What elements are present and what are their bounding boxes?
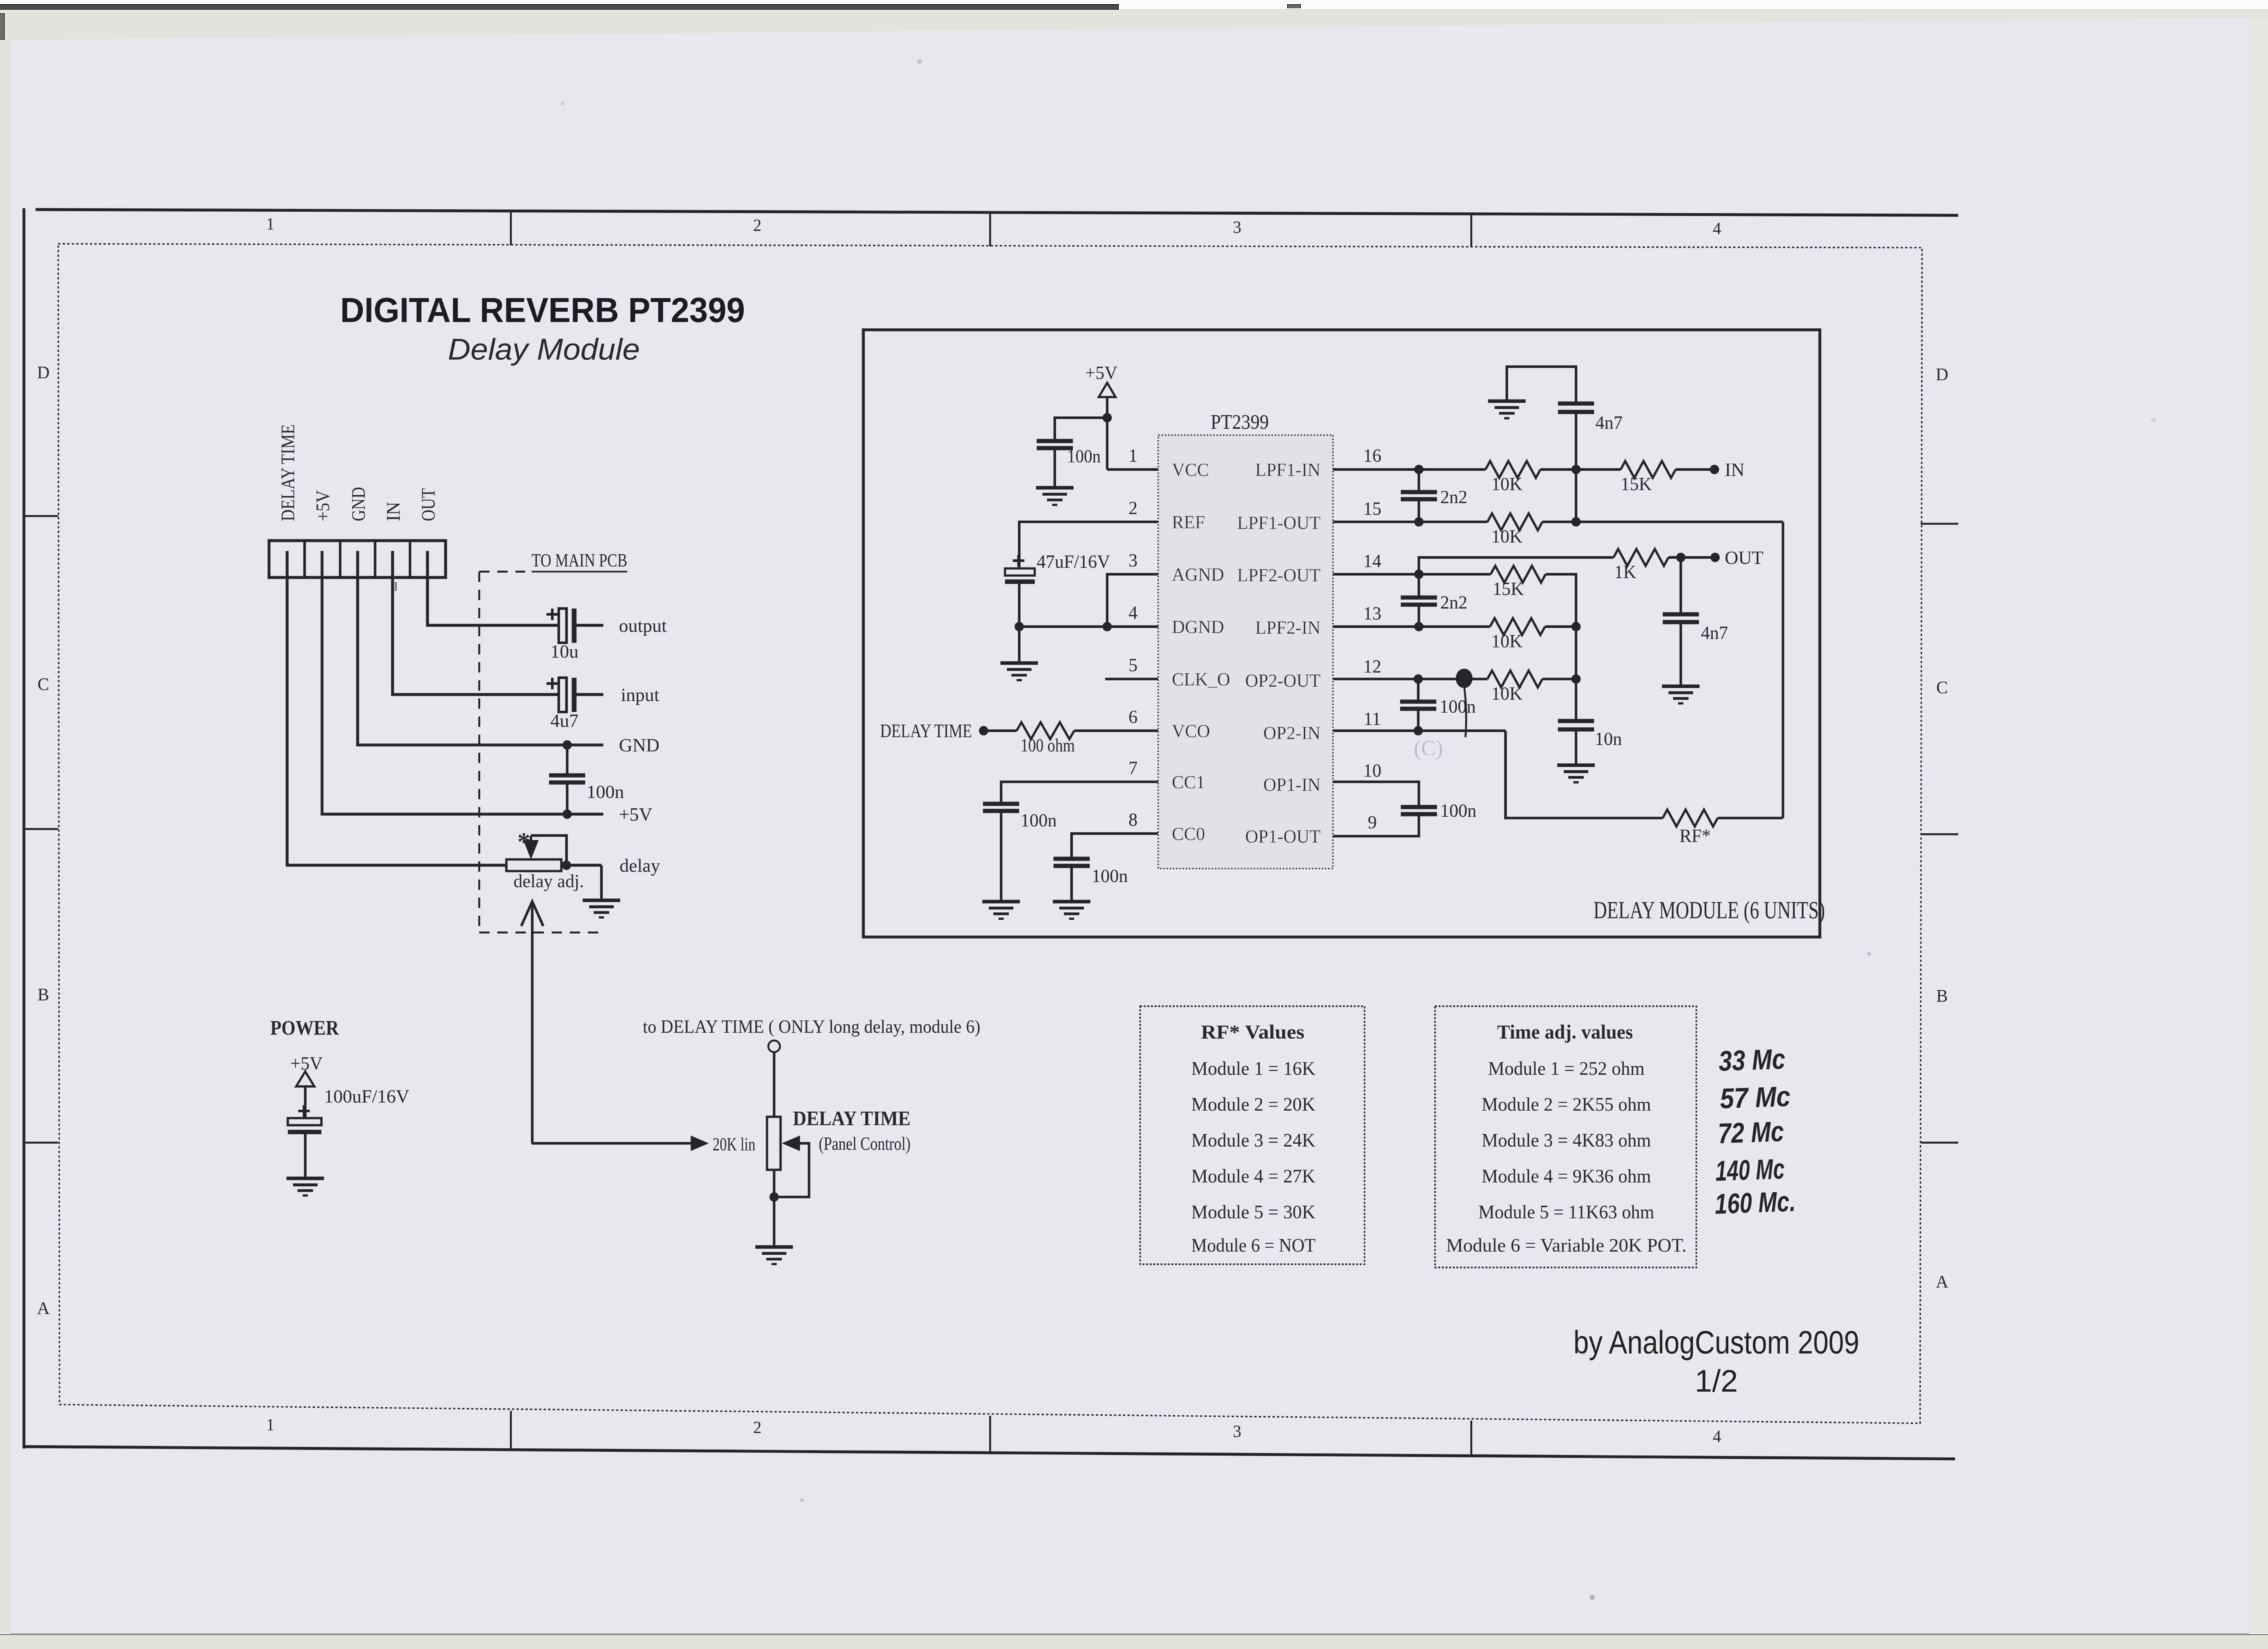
svg-text:Module 3 = 24K: Module 3 = 24K [1191,1130,1315,1151]
capacitor 4n7 (output filter) [1679,557,1682,612]
svg-text:AGND: AGND [1172,565,1224,585]
svg-text:Module 3 = 4K83 ohm: Module 3 = 4K83 ohm [1482,1130,1651,1151]
svg-text:Delay Module: Delay Module [448,332,640,366]
svg-text:100n: 100n [1067,447,1101,467]
capacitor 4n7 (input filter) [1507,367,1576,402]
svg-text:1: 1 [266,215,275,233]
svg-text:OP2-OUT: OP2-OUT [1245,671,1321,691]
wire pin12 OP2-OUT [1333,678,1487,680]
svg-text:DELAY TIME: DELAY TIME [793,1106,911,1130]
svg-text:delay adj.: delay adj. [513,872,584,892]
node vcc junction [1103,413,1112,422]
wire pin16 LPF1-IN [1333,468,1485,471]
capacitor 100n (vcc) [1055,418,1107,440]
svg-text:+5V: +5V [1085,363,1118,383]
svg-text:100n: 100n [1440,697,1476,717]
svg-text:Module 6 = Variable 20K POT.: Module 6 = Variable 20K POT. [1446,1235,1687,1256]
svg-text:11: 11 [1364,709,1381,729]
ground (47uF) [1000,662,1038,665]
svg-text:DELAY TIME: DELAY TIME [880,720,972,742]
svg-text:10K: 10K [1491,527,1522,547]
svg-text:DELAY TIME: DELAY TIME [277,424,299,521]
svg-text:Module 1 = 16K: Module 1 = 16K [1191,1058,1315,1079]
svg-text:Module 4 = 9K36 ohm: Module 4 = 9K36 ohm [1482,1166,1651,1187]
node OUT terminal [1711,553,1720,562]
wire pin13 LPF2-IN [1333,625,1490,628]
resistor 1K [1614,549,1669,566]
capacitor 100uF/16V [298,1110,310,1112]
svg-text:DELAY MODULE (6 UNITS): DELAY MODULE (6 UNITS) [1593,897,1825,924]
wire pin2 REF [1019,522,1158,568]
svg-text:CC1: CC1 [1172,773,1205,793]
wire OUT line [1419,557,1614,574]
svg-text:72 Mc: 72 Mc [1718,1115,1785,1150]
svg-text:IN: IN [1725,460,1745,480]
node delay junction [562,861,571,870]
svg-text:to DELAY TIME ( ONLY long dela: to DELAY TIME ( ONLY long delay, module … [643,1017,980,1037]
ground (vcc cap) [1036,486,1074,490]
svg-text:GND: GND [619,735,660,756]
svg-text:4n7: 4n7 [1595,413,1623,433]
svg-text:B: B [38,985,49,1004]
drawing frame inner border [58,244,1922,1423]
capacitor 4u7 (input) [559,678,567,712]
svg-text:LPF1-OUT: LPF1-OUT [1237,513,1321,533]
svg-text:13: 13 [1363,604,1381,624]
svg-text:CC0: CC0 [1172,824,1205,845]
ground (10n) [1557,764,1595,768]
resistor 10K (lpf1-in) [1485,461,1540,478]
svg-text:CLK_O: CLK_O [1172,670,1230,690]
svg-text:1: 1 [1129,446,1138,466]
svg-text:1/2: 1/2 [1695,1364,1738,1399]
svg-text:12: 12 [1363,657,1381,677]
svg-text:3: 3 [1129,551,1138,571]
wire +5V pin [322,551,603,814]
svg-text:*: * [517,827,530,856]
svg-text:Module 2 = 2K55 ohm: Module 2 = 2K55 ohm [1482,1094,1651,1115]
svg-text:2n2: 2n2 [1440,593,1467,613]
svg-text:Module 5 = 30K: Module 5 = 30K [1191,1202,1315,1223]
svg-text:4: 4 [1713,219,1722,238]
svg-text:C: C [1936,678,1948,697]
table RF* Values [1140,1006,1365,1264]
svg-text:10K: 10K [1491,475,1522,495]
svg-text:100uF/16V: 100uF/16V [324,1086,409,1107]
svg-text:7: 7 [1129,759,1138,779]
node pot junction [770,1192,779,1202]
feedback path RF* [1506,731,1663,818]
svg-text:10K: 10K [1491,632,1522,652]
drawing frame outer border [36,210,1958,215]
table Time adj. values [1435,1006,1696,1267]
svg-text:10n: 10n [1595,729,1622,749]
svg-text:160 Mc.: 160 Mc. [1714,1186,1797,1220]
svg-text:57 Mc: 57 Mc [1720,1081,1791,1115]
svg-text:(C): (C) [1414,737,1443,760]
wire IN pin to input cap [393,551,560,695]
capacitor 100n (gnd-5v) [566,745,568,774]
capacitor 10u (output) [559,609,567,643]
node +5V junction [563,810,572,819]
svg-text:10K: 10K [1491,684,1522,704]
svg-text:IN: IN [383,502,404,521]
svg-text:100n: 100n [1440,801,1476,821]
wire pin10 OP1-IN [1333,782,1419,805]
svg-text:PT2399: PT2399 [1211,410,1269,433]
svg-text:20K lin: 20K lin [713,1134,755,1155]
svg-text:1: 1 [266,1416,275,1434]
delay module outer box [863,330,1820,937]
svg-text:C: C [38,674,49,694]
svg-text:8: 8 [1129,810,1138,830]
resistor 100 ohm [1017,722,1074,739]
pot wiper [782,1136,800,1151]
svg-text:LPF2-OUT: LPF2-OUT [1237,566,1321,586]
svg-text:OUT: OUT [1725,548,1764,568]
svg-text:OUT: OUT [418,488,439,521]
capacitor 100n (op2) [1417,679,1420,700]
wire pin3 AGND [1107,574,1158,627]
svg-text:15K: 15K [1621,475,1652,495]
wire pin5 CLK_O stub [1105,678,1158,680]
wire pin15 LPF1-OUT [1333,521,1487,523]
svg-text:Time adj. values: Time adj. values [1497,1020,1633,1043]
svg-text:output: output [619,616,667,636]
capacitor 10n [1558,719,1594,724]
trimmer delay adj. [506,859,561,871]
svg-text:VCC: VCC [1172,460,1209,480]
svg-text:VCO: VCO [1172,722,1210,742]
svg-text:by AnalogCustom 2009: by AnalogCustom 2009 [1573,1324,1859,1361]
svg-text:16: 16 [1363,446,1381,466]
svg-text:REF: REF [1172,513,1205,533]
svg-text:4u7: 4u7 [550,711,579,731]
svg-text:GND: GND [348,487,369,521]
svg-text:6: 6 [1129,707,1138,727]
svg-text:9: 9 [1368,813,1377,833]
feedback rail right [1782,522,1784,818]
open terminal circle [768,1040,780,1052]
svg-text:+5V: +5V [312,490,334,521]
wire pin14 LPF2-OUT [1333,573,1491,576]
capacitor 47uF/16V [1013,559,1024,562]
IC U1 PT2399 [1158,435,1333,868]
frame row ticks [24,515,58,517]
svg-text:100n: 100n [587,782,625,803]
svg-text:2n2: 2n2 [1440,488,1467,508]
frame column ticks [510,212,512,245]
svg-text:140 Mc: 140 Mc [1715,1153,1786,1187]
dashed box TO MAIN PCB [479,572,481,932]
ground (panel pot) [755,1245,793,1249]
resistor 15K (in) [1621,461,1676,478]
svg-text:100n: 100n [1021,811,1057,831]
svg-text:100 ohm: 100 ohm [1021,736,1075,756]
svg-text:D: D [1936,365,1949,384]
svg-text:3: 3 [1233,218,1242,237]
svg-text:OP2-IN: OP2-IN [1263,724,1321,744]
wire pin7 CC1 [1001,782,1158,802]
wire GND pin [358,551,603,745]
ground (cc0) [1053,900,1090,904]
svg-text:input: input [621,685,660,706]
svg-text:delay: delay [620,856,660,876]
svg-text:LPF1-IN: LPF1-IN [1255,460,1321,480]
ground (4n7 output) [1662,685,1700,689]
capacitor 2n2 (lpf1) [1418,469,1420,490]
svg-text:100n: 100n [1092,867,1128,887]
svg-text:POWER: POWER [270,1016,340,1039]
resistor 10K (op2) [1487,671,1542,687]
svg-text:33 Mc: 33 Mc [1718,1043,1786,1077]
svg-text:+5V: +5V [290,1054,323,1074]
capacitor 100n (op1) [1401,805,1437,810]
svg-text:Module 5 = 11K63 ohm: Module 5 = 11K63 ohm [1478,1202,1654,1223]
svg-text:15: 15 [1363,499,1381,519]
svg-text:RF*: RF* [1679,826,1711,846]
svg-text:Module 1 = 252 ohm: Module 1 = 252 ohm [1488,1058,1645,1079]
svg-text:14: 14 [1363,552,1381,572]
svg-text:2: 2 [753,216,762,235]
resistor 15K (lpf2) [1491,566,1546,583]
node agnd-dgnd junction [1103,622,1112,631]
svg-text:Module 2 = 20K: Module 2 = 20K [1191,1094,1315,1115]
ground (delay pot) [600,865,603,899]
node IN terminal [1710,465,1719,474]
ground (4n7 input) [1488,400,1526,404]
svg-text:+5V: +5V [619,804,653,825]
svg-text:LPF2-IN: LPF2-IN [1255,618,1321,638]
svg-text:D: D [37,363,50,382]
svg-text:OP1-IN: OP1-IN [1263,775,1321,795]
arrow up to delay pot [531,903,534,1143]
wire arrow into pot [532,1142,692,1145]
svg-text:4: 4 [1713,1427,1722,1446]
wire pin8 CC0 [1072,834,1158,857]
svg-text:10: 10 [1363,761,1381,781]
svg-text:4n7: 4n7 [1701,623,1728,643]
svg-text:DGND: DGND [1172,618,1224,638]
svg-text:1K: 1K [1614,563,1636,583]
svg-text:2: 2 [1129,499,1138,519]
svg-text:RF* Values: RF* Values [1201,1020,1304,1043]
hand-drawn junction blob [1456,669,1473,688]
svg-text:2: 2 [753,1418,762,1437]
connector J1 (5-pin header) [269,541,446,577]
svg-text:A: A [1936,1272,1949,1291]
ground (power) [286,1177,324,1181]
svg-text:10u: 10u [550,641,579,662]
node GND junction [563,740,572,749]
capacitor 100n (cc1) [983,802,1019,806]
wire DELAY TIME pin to delay pot [287,551,506,865]
svg-text:B: B [1936,986,1948,1006]
resistor 10K (lpf2-in) [1490,618,1545,635]
wire OUT pin to output cap [427,551,560,625]
potentiometer DELAY TIME 20K lin [767,1117,781,1170]
ground (cc1) [982,900,1020,904]
capacitor 100n (cc0) [1053,857,1090,861]
wire pin4 DGND [1019,625,1158,628]
svg-text:Module 4 = 27K: Module 4 = 27K [1191,1166,1315,1187]
svg-text:47uF/16V: 47uF/16V [1037,552,1110,572]
wire pin1 VCC [1107,468,1158,471]
node dgnd junction [1015,622,1024,631]
svg-text:A: A [37,1299,50,1318]
svg-text:3: 3 [1233,1422,1242,1441]
svg-text:15K: 15K [1493,579,1524,599]
resistor 10K (lpf1-out) [1487,513,1542,530]
svg-text:Module 6 = NOT: Module 6 = NOT [1191,1235,1315,1256]
svg-text:TO MAIN PCB: TO MAIN PCB [532,550,627,571]
svg-text:OP1-OUT: OP1-OUT [1245,827,1321,847]
svg-text:(Panel Control): (Panel Control) [819,1134,911,1154]
svg-text:DIGITAL REVERB PT2399: DIGITAL REVERB PT2399 [340,291,745,330]
capacitor 2n2 (lpf2) [1418,574,1420,596]
svg-text:4: 4 [1129,603,1138,623]
svg-text:5: 5 [1129,656,1138,676]
wire pin11 OP2-IN [1333,729,1506,732]
